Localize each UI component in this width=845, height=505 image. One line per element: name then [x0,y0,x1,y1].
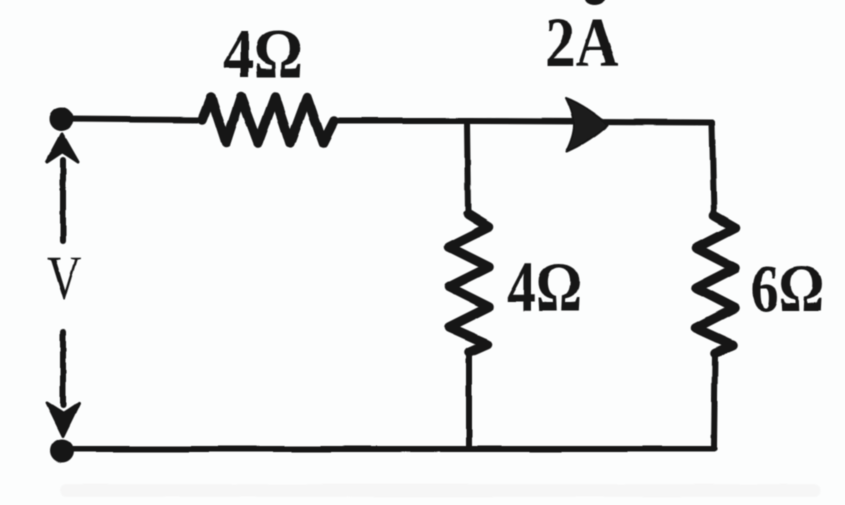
artifact: faint scan smudge along bottom edge [60,484,820,497]
wire: middle branch upper lead [467,121,468,214]
resistor 4Ω shunt (vertical zigzag, middle branch) [449,214,489,352]
resistor R1 4Ω series (horizontal zigzag) [202,97,334,143]
wire: top-left segment (terminal to resistor) [61,119,202,120]
artifact: cropped ink mark at top edge [585,0,605,5]
resistor 6Ω (vertical zigzag, right branch) [696,216,735,353]
source V: upper arrow (pointing up at top terminal) [47,134,78,241]
svg-text:2A: 2A [545,5,619,82]
source V: lower arrow (pointing down at bottom terminal) [47,332,79,436]
wire: right branch upper lead [712,122,714,216]
wire: top segment (resistor to right corner, through middle junction) [334,121,712,122]
svg-text:4Ω: 4Ω [507,247,582,327]
node: bottom-left terminal [50,439,74,463]
current arrow: 2A direction arrowhead on top wire [566,98,608,152]
svg-text:V: V [47,242,81,313]
wire: middle branch lower lead [466,352,472,449]
svg-text:6Ω: 6Ω [751,250,824,326]
node: top-left terminal [49,107,73,131]
wire: bottom return [62,446,714,452]
svg-text:4Ω: 4Ω [223,16,303,93]
wire: right branch lower lead [714,353,715,449]
